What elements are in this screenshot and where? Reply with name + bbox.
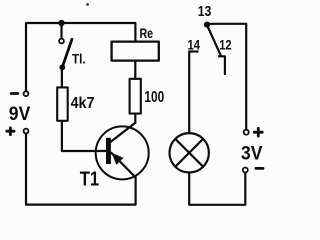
svg-text:Re: Re: [140, 25, 154, 41]
svg-text:3V: 3V: [241, 143, 263, 164]
svg-text:T1: T1: [80, 167, 100, 190]
svg-text:13: 13: [198, 4, 212, 20]
svg-text:Tl.: Tl.: [72, 50, 86, 66]
svg-text:100: 100: [144, 89, 164, 106]
svg-text:12: 12: [219, 36, 232, 52]
svg-text:9V: 9V: [9, 104, 31, 125]
svg-text:4k7: 4k7: [71, 95, 95, 112]
svg-text:14: 14: [188, 36, 201, 52]
